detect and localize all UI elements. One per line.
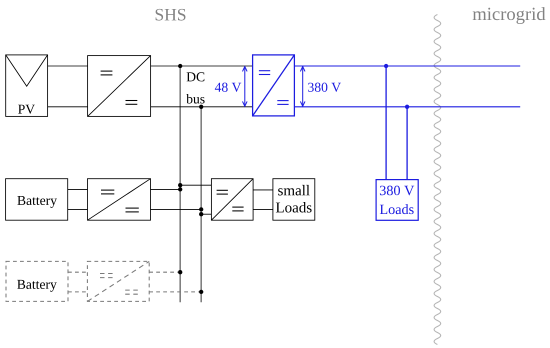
- label Loads: [276, 202, 312, 213]
- dashed wire battery-converter top: [68, 271, 87, 273]
- junction bus2 loads: [199, 212, 203, 216]
- junction bus1 top wire: [178, 64, 182, 68]
- junction bus1 loads: [178, 183, 182, 187]
- wire bus1-loads converter: [180, 184, 211, 186]
- label 48 V: [215, 83, 241, 92]
- wire battery-converter top: [68, 188, 88, 190]
- label PV: [18, 105, 35, 114]
- small Loads box: [273, 179, 315, 221]
- junction bus2 bottom wire: [199, 105, 203, 109]
- wire PV-converter bottom: [48, 106, 88, 108]
- wire converter-bus2 bottom: [151, 208, 202, 210]
- wire converter-blue converter top: [151, 65, 253, 67]
- junction bus1 dashed: [178, 270, 182, 274]
- voltage arrow 48 V: [243, 67, 248, 107]
- wire converter-small loads top: [253, 189, 273, 191]
- wire PV-converter top: [48, 65, 88, 67]
- dashed wire battery-converter bottom: [68, 291, 87, 293]
- blue drop wire 2: [406, 107, 408, 180]
- wire converter-bus1 top: [151, 188, 181, 190]
- junction blue top: [384, 64, 388, 68]
- blue drop wire 1: [385, 66, 387, 180]
- label 380 V Loads line1: [380, 186, 414, 196]
- dashed converter U5: [87, 261, 149, 301]
- junction bus1 battery: [178, 187, 182, 191]
- dashed wire converter-bus2: [149, 291, 201, 293]
- grid boundary wavy line: [434, 15, 441, 345]
- Battery box: [6, 179, 68, 221]
- wire battery-converter bottom: [68, 208, 88, 210]
- PV module V symbol: [6, 55, 48, 86]
- label 380 V: [308, 83, 341, 92]
- blue microgrid wire bottom: [294, 106, 520, 108]
- PV module box: [6, 55, 48, 117]
- label 380 V Loads line2: [380, 204, 414, 214]
- dashed future Battery box: [6, 261, 68, 301]
- wire converter-small loads bottom: [253, 208, 273, 210]
- DC bus line 1: [179, 66, 181, 302]
- converter U2 (blue 48V/380V DC/DC): [253, 55, 295, 116]
- label Battery dashed: [17, 280, 57, 292]
- converter U4 (small loads DC/DC): [211, 179, 253, 221]
- converter U1 (PV DC/DC): [88, 56, 151, 117]
- voltage arrow 380 V: [300, 67, 305, 107]
- junction blue bottom: [405, 105, 409, 109]
- converter U3 (battery DC/DC): [88, 179, 151, 221]
- label SHS: [156, 9, 186, 21]
- wire bus2-loads converter: [201, 213, 211, 215]
- dashed wire converter-bus1: [149, 271, 180, 273]
- wire converter-blue converter bottom: [151, 106, 253, 108]
- 380 V Loads box: [376, 180, 418, 221]
- label small: [278, 185, 310, 196]
- junction bus2 dashed: [199, 290, 203, 294]
- label bus: [186, 94, 204, 104]
- DC bus line 2: [200, 107, 202, 302]
- junction bus2 battery: [199, 207, 203, 211]
- label Battery: [17, 196, 57, 208]
- label DC: [187, 72, 205, 81]
- label microgrid: [473, 7, 546, 24]
- blue microgrid wire top: [294, 65, 520, 67]
